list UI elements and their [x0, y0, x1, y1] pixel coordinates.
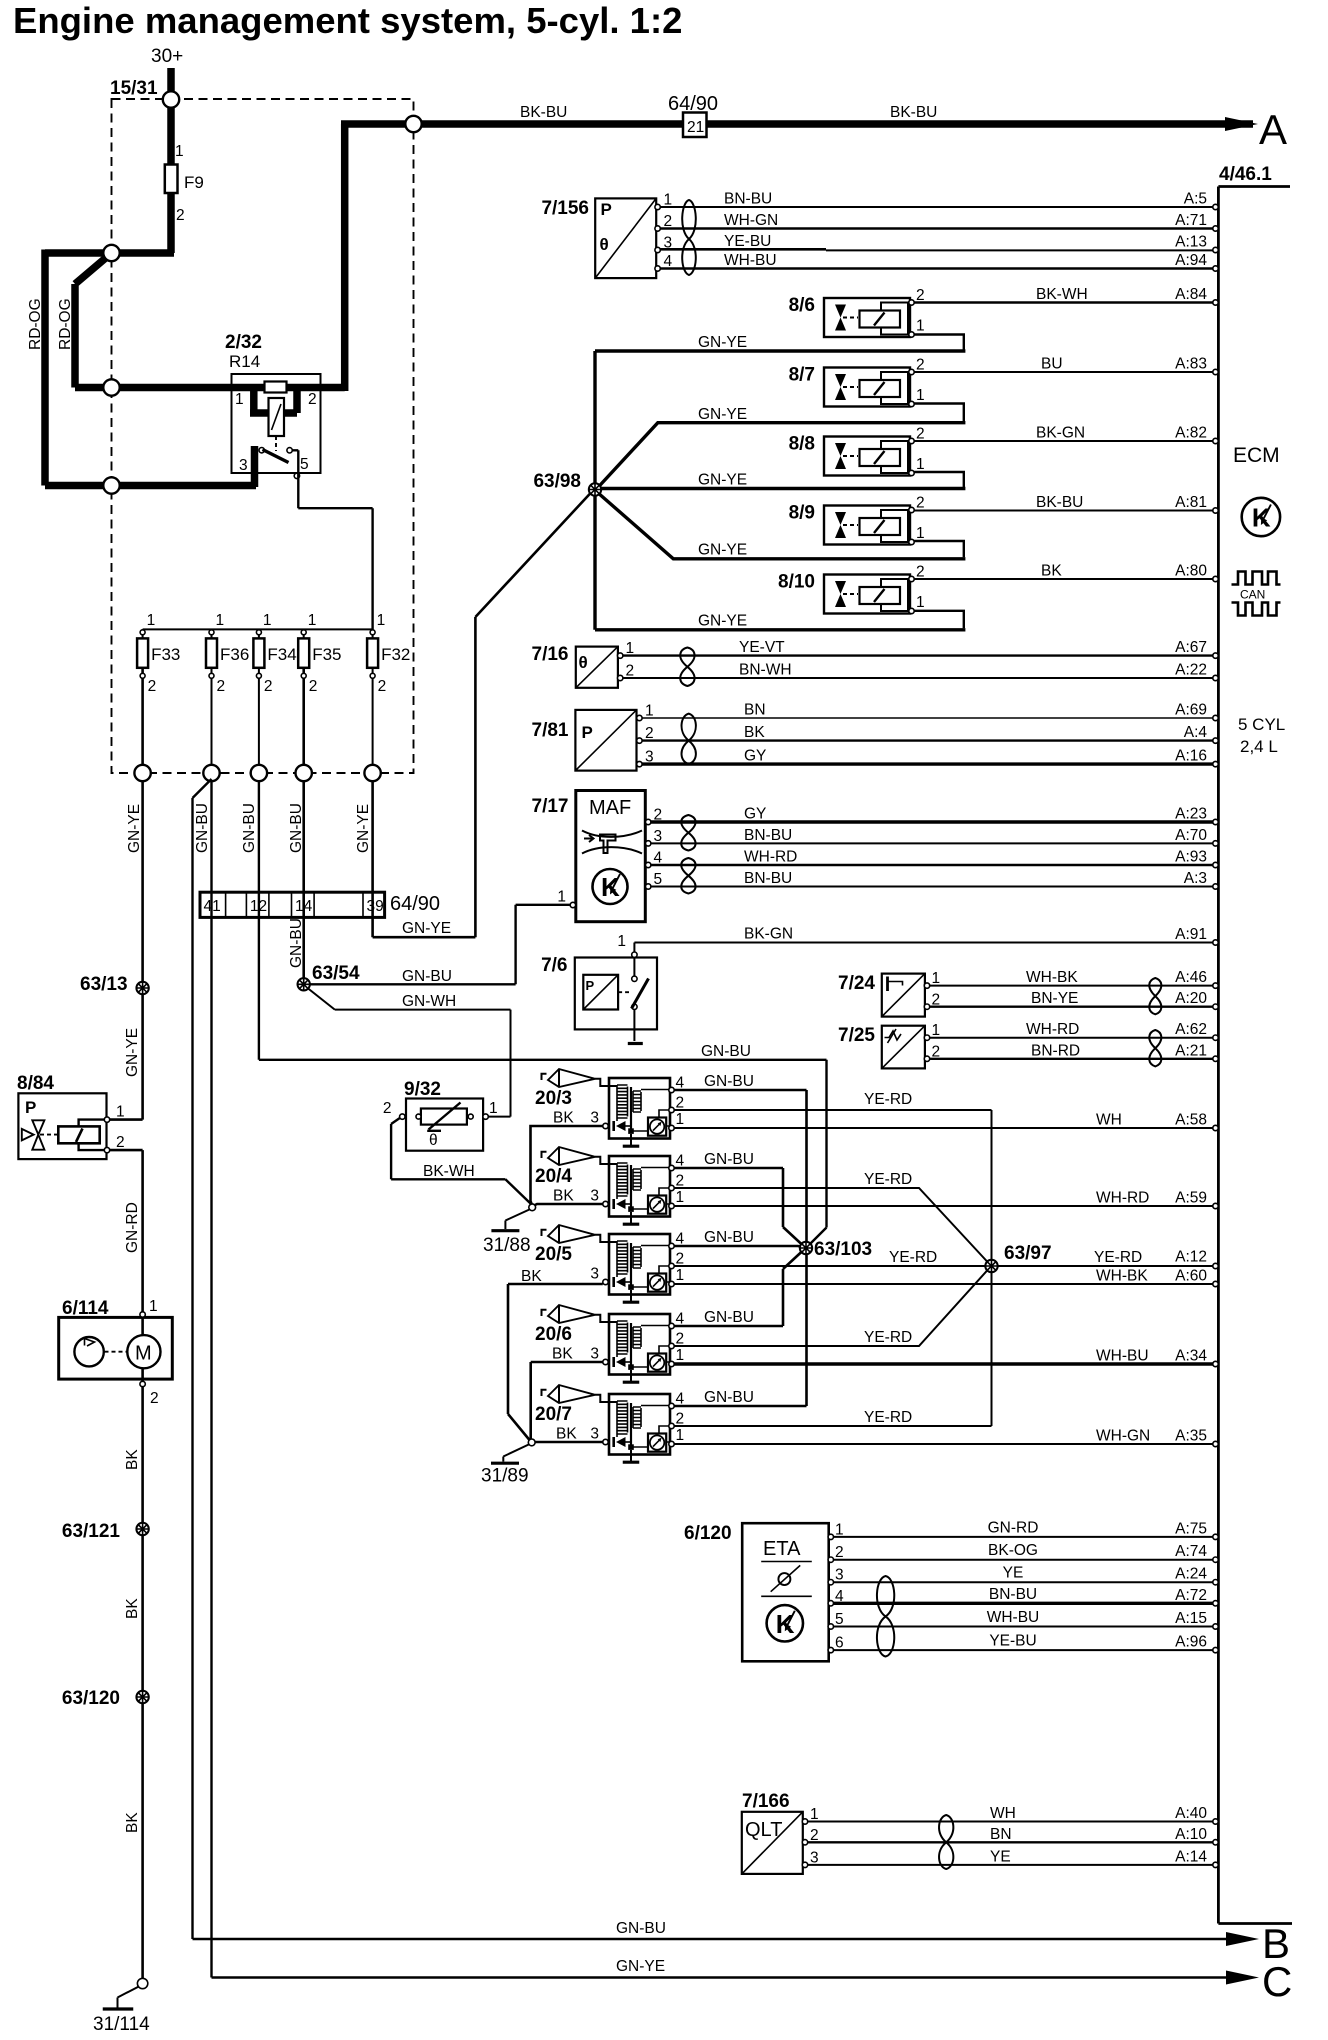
- svg-text:GN-BU: GN-BU: [704, 1229, 754, 1246]
- wire label BK 20/5: [521, 1268, 542, 1285]
- svg-text:3: 3: [645, 749, 654, 766]
- node fuse F33 exit: [134, 765, 150, 781]
- wire BK-BU to A:81: [914, 494, 1218, 513]
- svg-text:BK-GN: BK-GN: [1036, 425, 1085, 442]
- wire label YE-RD 20/3: [864, 1091, 912, 1108]
- wire label BK-GN: [744, 926, 793, 943]
- wire GN-YE return 8/10: [914, 611, 964, 629]
- svg-text:5: 5: [654, 871, 663, 888]
- svg-text:8/7: 8/7: [789, 365, 815, 386]
- svg-text:A:91: A:91: [1175, 926, 1207, 943]
- wire RD-OG left branch (heavy): [45, 250, 256, 486]
- ground node 31/89: [528, 1439, 535, 1446]
- svg-text:9/32: 9/32: [404, 1079, 441, 1100]
- svg-text:A:46: A:46: [1175, 969, 1207, 986]
- node fuse F36 exit: [203, 765, 219, 781]
- twisted pair 7/17 b: [681, 858, 695, 894]
- ignition coil 20/7 with spark plug: [535, 1385, 685, 1462]
- twisted pair 7/16: [680, 648, 694, 687]
- svg-text:BK: BK: [744, 724, 765, 741]
- svg-text:CAN: CAN: [1240, 588, 1265, 602]
- svg-text:30+: 30+: [151, 46, 183, 67]
- wire label GN-BU 20/4: [704, 1151, 754, 1168]
- wire BN-RD to A:21: [930, 1042, 1219, 1061]
- svg-text:WH: WH: [990, 1805, 1016, 1822]
- wire WH-BU to A:34: [674, 1348, 1218, 1367]
- svg-text:YE: YE: [990, 1848, 1011, 1865]
- wire GN-BU 63/54 to MAF pin1: [309, 905, 570, 985]
- junction 63/97: [985, 1243, 1051, 1272]
- svg-text:3: 3: [590, 1346, 599, 1363]
- svg-text:F36: F36: [220, 645, 249, 664]
- junction 63/120: [62, 1688, 149, 1709]
- svg-text:ECM: ECM: [1233, 444, 1280, 467]
- svg-text:GN-BU: GN-BU: [701, 1043, 751, 1060]
- svg-text:4: 4: [835, 1588, 844, 1605]
- wire label GN-BU (F35): [288, 803, 305, 853]
- svg-text:31/114: 31/114: [93, 2014, 150, 2035]
- svg-text:2: 2: [150, 1390, 159, 1407]
- svg-text:7/25: 7/25: [838, 1025, 875, 1046]
- arrow A: [1225, 106, 1287, 153]
- wire RD-OG right branch to relay (heavy): [75, 253, 345, 388]
- svg-text:8/10: 8/10: [778, 572, 815, 593]
- svg-text:1: 1: [489, 1100, 498, 1117]
- svg-text:A:21: A:21: [1175, 1042, 1207, 1059]
- svg-text:F33: F33: [151, 645, 180, 664]
- wire label GN-BU (B): [616, 1920, 666, 1937]
- svg-text:GN-BU: GN-BU: [704, 1073, 754, 1090]
- svg-text:4: 4: [654, 850, 663, 867]
- svg-text:1: 1: [932, 970, 941, 987]
- svg-text:3: 3: [590, 1266, 599, 1283]
- twisted pair 7/25: [1149, 1030, 1161, 1066]
- wire WH to A:58: [674, 1112, 1218, 1131]
- svg-text:GY: GY: [744, 748, 766, 765]
- svg-text:A:70: A:70: [1175, 827, 1207, 844]
- wire label GN-YE 8/7: [698, 406, 747, 423]
- node 30+ supply: [151, 46, 183, 67]
- svg-text:7/24: 7/24: [838, 973, 875, 994]
- svg-text:5: 5: [300, 456, 309, 473]
- wire BK-WH to A:84: [914, 286, 1218, 305]
- svg-text:A:74: A:74: [1175, 1543, 1207, 1560]
- wire GN-BU 20/5: [674, 1246, 804, 1248]
- wire YE-RD 20/4: [674, 1188, 988, 1263]
- fuel pump 6/114: [59, 1298, 173, 1407]
- svg-text:YE-RD: YE-RD: [1094, 1249, 1142, 1266]
- svg-text:BN-WH: BN-WH: [739, 662, 792, 679]
- wire BK to A:4: [642, 724, 1218, 743]
- svg-text:BN-RD: BN-RD: [1031, 1042, 1080, 1059]
- svg-text:7/81: 7/81: [532, 720, 569, 741]
- svg-text:1: 1: [676, 1347, 685, 1364]
- svg-text:BN-BU: BN-BU: [744, 870, 792, 887]
- wire BK 20/6 to 31/89: [531, 1362, 603, 1439]
- wire YE-RD 20/5 (to A:12): [674, 1265, 1213, 1267]
- ground 31/88: [483, 1210, 531, 1257]
- svg-text:2: 2: [308, 391, 317, 408]
- svg-text:A:5: A:5: [1184, 191, 1207, 208]
- wire label GN-BU (F34): [241, 803, 258, 853]
- svg-text:BK-WH: BK-WH: [423, 1163, 475, 1180]
- arrow C: [1226, 1958, 1292, 2005]
- svg-text:GN-BU: GN-BU: [288, 918, 305, 968]
- svg-text:2: 2: [916, 426, 925, 443]
- wire GN-YE return 8/9: [914, 541, 964, 557]
- wire BN to A:69: [642, 702, 1218, 721]
- svg-text:2: 2: [916, 495, 925, 512]
- ECM engine label: [1238, 715, 1285, 756]
- svg-text:GN-YE: GN-YE: [698, 542, 747, 559]
- svg-text:1: 1: [617, 933, 626, 950]
- svg-text:A:62: A:62: [1175, 1021, 1207, 1038]
- svg-text:1: 1: [916, 387, 925, 404]
- svg-text:8/6: 8/6: [789, 295, 815, 316]
- svg-text:WH-RD: WH-RD: [1026, 1021, 1079, 1038]
- connector 64/90 pin 21: [668, 93, 718, 137]
- wire BN-BU to A:70: [651, 827, 1218, 846]
- wire label GN-YE 8/9: [698, 542, 747, 559]
- svg-text:BK-GN: BK-GN: [744, 926, 793, 943]
- svg-text:1: 1: [916, 456, 925, 473]
- wire BU to A:83: [914, 356, 1218, 375]
- wire 30+ feed through F9 (heavy): [167, 68, 175, 253]
- svg-text:31/89: 31/89: [481, 1466, 529, 1487]
- svg-text:5 CYL: 5 CYL: [1238, 715, 1285, 734]
- svg-text:1: 1: [626, 640, 635, 657]
- wire BK 20/3 to 31/88: [531, 1126, 603, 1205]
- wire GN-BU 20/3: [674, 1090, 806, 1243]
- junction 63/54: [298, 963, 360, 991]
- svg-text:GN-YE: GN-YE: [124, 1028, 141, 1077]
- wire label GN-BU 20/7: [704, 1389, 754, 1406]
- svg-text:A:84: A:84: [1175, 286, 1207, 303]
- svg-text:GN-BU: GN-BU: [241, 803, 258, 853]
- wire GN-YE F32 to 63/98: [373, 492, 592, 938]
- svg-text:A:81: A:81: [1175, 494, 1207, 511]
- svg-text:3: 3: [239, 457, 248, 474]
- svg-text:A:96: A:96: [1175, 1634, 1207, 1651]
- wire GY to A:16: [642, 748, 1218, 767]
- svg-text:A:93: A:93: [1175, 849, 1207, 866]
- svg-text:3: 3: [590, 1110, 599, 1127]
- svg-text:GN-YE: GN-YE: [616, 1958, 665, 1975]
- svg-text:A:15: A:15: [1175, 1610, 1207, 1627]
- svg-text:YE-RD: YE-RD: [889, 1249, 937, 1266]
- wire label GN-YE 8/8: [698, 472, 747, 489]
- twisted pair 7/81: [682, 714, 696, 764]
- ground 31/114: [93, 1978, 150, 2035]
- wire label RD-OG: [27, 298, 44, 350]
- svg-text:63/120: 63/120: [62, 1688, 120, 1709]
- ground 31/89: [481, 1445, 529, 1487]
- wire GN-YE F33 to 8/84: [141, 781, 144, 1120]
- ECM K symbol: [1242, 498, 1280, 536]
- svg-text:BK: BK: [556, 1426, 577, 1443]
- wire BK-BU main feed to A (heavy): [341, 124, 1253, 391]
- svg-text:F32: F32: [381, 645, 410, 664]
- svg-text:θ: θ: [429, 1132, 438, 1149]
- wire label BK-WH: [423, 1163, 475, 1180]
- svg-text:YE: YE: [1003, 1565, 1024, 1582]
- fuse F36: [206, 612, 249, 773]
- svg-text:M: M: [135, 1343, 152, 1365]
- wire BN-BU to A:3: [651, 870, 1218, 889]
- injector 8/7: [789, 357, 925, 407]
- fuse F33: [137, 612, 180, 773]
- sensor 7/25 (acceleration): [838, 1022, 940, 1068]
- wire label BK 20/4: [553, 1188, 574, 1205]
- svg-text:A:3: A:3: [1184, 870, 1207, 887]
- wire relay pin5 to fuse rail: [293, 450, 373, 629]
- wire GN-YE return 8/8: [914, 472, 964, 487]
- twisted pair 6/120: [877, 1576, 894, 1657]
- svg-text:A: A: [1259, 106, 1287, 153]
- svg-text:2: 2: [810, 1827, 819, 1844]
- svg-text:6/120: 6/120: [684, 1523, 732, 1544]
- svg-text:WH-GN: WH-GN: [724, 212, 778, 229]
- sensor 7/156 (P/theta): [541, 192, 672, 279]
- svg-text:F34: F34: [267, 645, 296, 664]
- svg-text:GN-RD: GN-RD: [124, 1202, 141, 1253]
- wire label GN-BU (F36): [194, 803, 211, 853]
- svg-text:BK: BK: [552, 1346, 573, 1363]
- wire WH-GN to A:71: [660, 212, 1218, 231]
- svg-text:GN-YE: GN-YE: [355, 804, 372, 853]
- svg-text:1: 1: [916, 594, 925, 611]
- ignition coil 20/5 with spark plug: [535, 1225, 685, 1302]
- wire 8/84 pin1: [110, 1118, 143, 1121]
- node fuse F32 exit: [364, 765, 380, 781]
- svg-text:1: 1: [676, 1427, 685, 1444]
- svg-text:GN-YE: GN-YE: [698, 406, 747, 423]
- wire WH-RD to A:62: [930, 1021, 1219, 1040]
- injector 8/8: [789, 426, 925, 476]
- svg-text:A:82: A:82: [1175, 425, 1207, 442]
- fuse box 15/31 dashed enclosure: [110, 78, 414, 773]
- ignition coil 20/3 with spark plug: [535, 1069, 685, 1146]
- wire label GN-YE below 63/13: [124, 1028, 141, 1077]
- svg-text:GN-YE: GN-YE: [402, 920, 451, 937]
- svg-text:GN-BU: GN-BU: [402, 968, 452, 985]
- svg-text:63/13: 63/13: [80, 974, 128, 995]
- svg-text:1: 1: [116, 1104, 125, 1121]
- svg-text:A:58: A:58: [1175, 1112, 1207, 1129]
- twisted pair 7/17 a: [681, 815, 695, 851]
- svg-text:1: 1: [810, 1806, 819, 1823]
- valve 8/84 (EVAP): [17, 1073, 125, 1159]
- svg-text:YE-VT: YE-VT: [739, 639, 785, 656]
- wire label GN-YE 8/6: [698, 334, 747, 351]
- wire YE-RD 20/6: [674, 1269, 988, 1346]
- ECM CAN symbol: [1232, 572, 1281, 616]
- svg-text:1: 1: [149, 1298, 158, 1315]
- wire GN-RD to A:75: [834, 1519, 1219, 1539]
- svg-text:5: 5: [835, 1611, 844, 1628]
- svg-text:2: 2: [916, 564, 925, 581]
- wire label GN-YE (C): [616, 1958, 665, 1975]
- svg-text:63/97: 63/97: [1004, 1243, 1052, 1264]
- wire GN-YE return 8/7: [914, 404, 964, 422]
- svg-text:2/32: 2/32: [225, 332, 262, 353]
- svg-text:P: P: [601, 200, 612, 219]
- twisted pair 7/24: [1149, 978, 1161, 1014]
- svg-text:F9: F9: [184, 173, 204, 192]
- svg-text:1: 1: [308, 612, 317, 629]
- svg-text:A:67: A:67: [1175, 639, 1207, 656]
- wire label BK-BU left: [520, 104, 567, 121]
- fuse F9: [165, 143, 204, 224]
- svg-text:A:12: A:12: [1175, 1249, 1207, 1266]
- svg-text:RD-OG: RD-OG: [27, 298, 44, 350]
- svg-text:A:94: A:94: [1175, 252, 1207, 269]
- svg-text:2: 2: [309, 678, 318, 695]
- svg-text:BK: BK: [553, 1110, 574, 1127]
- svg-text:YE-BU: YE-BU: [989, 1633, 1036, 1650]
- svg-text:20/4: 20/4: [535, 1166, 572, 1187]
- svg-text:F35: F35: [312, 645, 341, 664]
- svg-text:A:80: A:80: [1175, 563, 1207, 580]
- svg-text:21: 21: [687, 119, 704, 136]
- svg-text:A:75: A:75: [1175, 1520, 1207, 1537]
- node 15/31 top: [163, 91, 179, 107]
- junction 63/121: [62, 1521, 149, 1542]
- wire label YE-RD 20/6: [864, 1329, 912, 1346]
- svg-text:3: 3: [664, 235, 673, 252]
- node fuse F34 exit: [251, 765, 267, 781]
- svg-text:7/16: 7/16: [532, 644, 569, 665]
- svg-text:3: 3: [590, 1188, 599, 1205]
- svg-text:2: 2: [664, 213, 673, 230]
- svg-text:A:35: A:35: [1175, 1428, 1207, 1445]
- wire label GN-BU 20/5: [704, 1229, 754, 1246]
- svg-text:BK: BK: [1041, 563, 1062, 580]
- wire label BK (upper): [124, 1449, 141, 1470]
- wire label GN-WH: [402, 993, 456, 1010]
- svg-text:2: 2: [676, 1251, 685, 1268]
- svg-text:63/103: 63/103: [814, 1239, 872, 1260]
- svg-text:GN-YE: GN-YE: [698, 472, 747, 489]
- svg-text:GN-BU: GN-BU: [616, 1920, 666, 1937]
- sensor 9/32 (coolant temp): [383, 1079, 498, 1151]
- svg-text:2: 2: [654, 807, 663, 824]
- svg-text:BK-BU: BK-BU: [890, 104, 937, 121]
- wire label GN-BU (MAF): [402, 968, 452, 985]
- wire GN-WH 63/54 to 9/32: [308, 988, 511, 1117]
- wire YE-RD 20/7: [674, 1425, 991, 1427]
- svg-text:BK-BU: BK-BU: [1036, 494, 1083, 511]
- wire label GN-YE 8/10: [698, 613, 747, 630]
- svg-text:GN-BU: GN-BU: [704, 1389, 754, 1406]
- twisted pair 7/156: [682, 200, 696, 275]
- svg-text:QLT: QLT: [745, 1819, 782, 1841]
- svg-text:6: 6: [835, 1635, 844, 1652]
- svg-text:GN-RD: GN-RD: [988, 1519, 1039, 1536]
- sensor 7/17 MAF: [532, 791, 663, 922]
- wire BK 20/7 to 31/89: [535, 1441, 603, 1444]
- wire label GN-YE (injector feed): [402, 920, 451, 937]
- svg-text:WH-BK: WH-BK: [1026, 969, 1078, 986]
- svg-text:A:10: A:10: [1175, 1826, 1207, 1843]
- svg-text:1: 1: [835, 1521, 844, 1538]
- svg-text:3: 3: [654, 828, 663, 845]
- wire BK to A:80: [914, 563, 1218, 582]
- wire YE-VT to A:67: [623, 639, 1218, 658]
- svg-text:BK: BK: [553, 1188, 574, 1205]
- wire label BK 20/3: [553, 1110, 574, 1127]
- svg-text:2: 2: [116, 1134, 125, 1151]
- svg-text:20/6: 20/6: [535, 1324, 572, 1345]
- wire BK 20/4 to 31/88: [533, 1204, 603, 1206]
- svg-text:3: 3: [835, 1567, 844, 1584]
- wire YE to A:24: [834, 1565, 1219, 1585]
- wire GN-BU to arrow B: [193, 779, 1229, 1939]
- wire BN-BU to A:72: [834, 1586, 1219, 1606]
- svg-text:A:14: A:14: [1175, 1848, 1207, 1865]
- wire label GN-BU 20/3: [704, 1073, 754, 1090]
- wire WH to A:40: [808, 1805, 1219, 1824]
- fuse F34: [253, 612, 296, 773]
- wire BK-WH 9/32 to 31/88: [391, 1118, 530, 1204]
- wire BK-OG to A:74: [834, 1542, 1219, 1562]
- wire WH-BK to A:46: [930, 969, 1219, 988]
- svg-text:YE-RD: YE-RD: [864, 1409, 912, 1426]
- svg-text:BN-BU: BN-BU: [724, 191, 772, 208]
- wire GY to A:23: [651, 806, 1218, 825]
- svg-text:BN: BN: [990, 1826, 1012, 1843]
- svg-text:YE-RD: YE-RD: [864, 1329, 912, 1346]
- wire label GN-YE (F32): [355, 804, 372, 853]
- svg-text:RD-OG: RD-OG: [57, 298, 74, 350]
- svg-text:1: 1: [676, 1111, 685, 1128]
- svg-text:A:40: A:40: [1175, 1805, 1207, 1822]
- svg-text:39: 39: [367, 898, 384, 915]
- wire label YE-RD 20/4: [864, 1171, 912, 1188]
- svg-text:63/54: 63/54: [312, 963, 360, 984]
- svg-text:BK: BK: [521, 1268, 542, 1285]
- svg-text:2: 2: [676, 1173, 685, 1190]
- svg-text:MAF: MAF: [589, 797, 631, 819]
- svg-text:8/84: 8/84: [17, 1073, 54, 1094]
- wire label RD-OG 2: [57, 298, 74, 350]
- svg-text:BK-WH: BK-WH: [1036, 286, 1088, 303]
- svg-text:2: 2: [676, 1331, 685, 1348]
- wire BN to A:10: [808, 1826, 1219, 1845]
- svg-text:A:22: A:22: [1175, 662, 1207, 679]
- wire relay pin3 riser (heavy): [251, 446, 259, 487]
- wire BN-YE to A:20: [930, 990, 1219, 1009]
- svg-text:WH-BU: WH-BU: [1096, 1348, 1149, 1365]
- svg-text:θ: θ: [579, 653, 588, 672]
- svg-text:GN-YE: GN-YE: [698, 334, 747, 351]
- svg-text:2: 2: [676, 1411, 685, 1428]
- svg-text:63/98: 63/98: [533, 471, 581, 492]
- svg-text:2,4 L: 2,4 L: [1240, 737, 1278, 756]
- svg-text:A:23: A:23: [1175, 806, 1207, 823]
- svg-text:2: 2: [932, 992, 941, 1009]
- svg-text:A:71: A:71: [1175, 212, 1207, 229]
- svg-text:GN-BU: GN-BU: [704, 1309, 754, 1326]
- sensor 7/81 (pressure): [532, 703, 654, 771]
- wire label BK-BU right: [890, 104, 937, 121]
- svg-text:2: 2: [176, 207, 185, 224]
- svg-text:2: 2: [932, 1044, 941, 1061]
- svg-text:R14: R14: [229, 352, 260, 371]
- svg-text:P: P: [25, 1098, 36, 1117]
- ignition coil 20/6 with spark plug: [535, 1305, 685, 1382]
- sensor 7/24 (knock): [838, 970, 940, 1017]
